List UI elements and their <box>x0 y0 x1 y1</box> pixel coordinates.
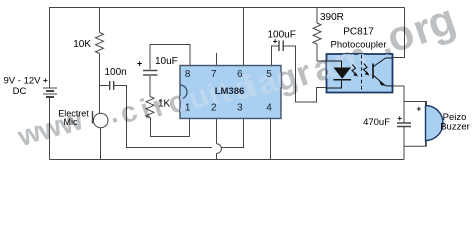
capacitor C2 10uF <box>143 71 158 76</box>
capacitor C1 100n <box>110 81 114 90</box>
svg-text:10uF: 10uF <box>155 56 178 67</box>
svg-text:2: 2 <box>211 103 217 114</box>
svg-text:+: + <box>397 114 402 123</box>
wire 100uF right to LED cathode <box>284 46 327 102</box>
optocoupler U2 PC817 <box>327 54 393 93</box>
watermark www.circuitdiagram.org (gray pass) <box>13 0 462 152</box>
op-amp U1 LM386 <box>180 66 281 119</box>
wire bottom to buzzer bottom <box>404 140 426 146</box>
wire 100n pin3 segment after hop <box>221 119 244 148</box>
capacitor C4 470uF <box>397 123 411 127</box>
resistor R3 390R <box>313 23 321 44</box>
capacitor C3 100uF <box>279 41 283 52</box>
wire 390R top <box>316 8 318 24</box>
wire pin6 to top rail <box>243 8 245 66</box>
svg-text:Buzzer: Buzzer <box>440 122 470 133</box>
light arrows <box>352 64 370 77</box>
wire 100n right to pin3 <box>114 86 212 148</box>
wire left rail upper <box>49 8 51 89</box>
svg-text:8: 8 <box>185 69 191 80</box>
wire mic bottom to bottom rail <box>100 128 102 160</box>
wire pin4 to bottom rail <box>270 119 272 160</box>
resistor R2 1K <box>146 97 154 118</box>
svg-text:+: + <box>43 76 48 85</box>
wire 1K bottom to pin1 <box>151 118 190 137</box>
wire pin5 to 100uF <box>272 46 279 66</box>
wire 10uF to 1K <box>149 76 151 97</box>
wire left rail lower <box>49 97 51 160</box>
LED D1 inside PC817 <box>327 61 352 88</box>
svg-text:+: + <box>137 59 142 69</box>
resistor R1 10K <box>96 33 104 54</box>
wire right drop from top rail to collector <box>393 8 405 58</box>
svg-text:3: 3 <box>237 103 243 114</box>
svg-text:1: 1 <box>185 103 191 114</box>
wire node to buzzer top <box>404 102 427 107</box>
svg-text:DC: DC <box>13 86 27 97</box>
svg-text:LM386: LM386 <box>215 86 245 97</box>
svg-text:4: 4 <box>266 103 272 114</box>
wire pin8 loop to 10uF <box>150 45 190 70</box>
svg-text:100n: 100n <box>105 67 127 78</box>
wire 10K bottom to mic top <box>99 54 101 114</box>
electret mic MIC1 <box>93 113 108 128</box>
wire pin7 stub <box>216 53 218 66</box>
svg-text:9V - 12V: 9V - 12V <box>4 76 42 87</box>
svg-text:10K: 10K <box>73 39 91 50</box>
svg-text:7: 7 <box>211 69 217 80</box>
wire 100n left stub <box>100 85 110 87</box>
svg-text:470uF: 470uF <box>363 117 390 128</box>
battery B1 <box>43 88 57 97</box>
phototransistor Q1 inside PC817 <box>373 58 393 86</box>
svg-text:+: + <box>417 105 422 114</box>
svg-text:5: 5 <box>266 69 272 80</box>
dashed isolation line <box>361 55 363 92</box>
watermark pale pass over blue boxes <box>164 21 397 120</box>
wire 470uF bottom to bottom rail <box>403 127 405 160</box>
wire bottom rail <box>50 159 405 161</box>
svg-text:6: 6 <box>237 69 243 80</box>
svg-text:390R: 390R <box>320 12 344 23</box>
wire 10K column top <box>99 8 101 33</box>
wire 390R bottom to LED anode <box>317 44 327 61</box>
svg-text:100uF: 100uF <box>268 30 296 41</box>
wire pin2 down with hop <box>216 119 218 144</box>
wire top rail <box>49 7 405 9</box>
wire emitter to 470uF node <box>393 86 405 123</box>
piezo buzzer BZ1 <box>425 102 427 147</box>
